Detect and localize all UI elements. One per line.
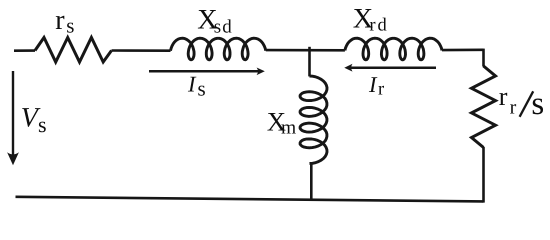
- svg-text:s: s: [38, 112, 47, 137]
- svg-text:s: s: [198, 77, 206, 101]
- resistor r_r/s: [472, 66, 496, 148]
- svg-text:r: r: [499, 82, 508, 111]
- wire top-right corner down to r_r/s: [482, 49, 485, 67]
- inductor X_rd: [345, 38, 442, 60]
- svg-text:s: s: [66, 13, 74, 37]
- svg-text:r: r: [55, 5, 65, 36]
- svg-text:sd: sd: [214, 17, 233, 38]
- svg-text:r: r: [510, 97, 517, 119]
- wire r_r/s down to bottom rail: [482, 147, 485, 203]
- svg-text:I: I: [187, 72, 197, 97]
- node stub from top wire to X_m: [308, 47, 311, 77]
- svg-text:r: r: [378, 80, 384, 100]
- inductor X_m: [300, 76, 327, 164]
- wire from X_rd to top-right corner: [442, 48, 484, 51]
- arrow I_r (rotor current): [344, 64, 436, 72]
- svg-text:I: I: [368, 72, 378, 97]
- svg-text:rd: rd: [369, 16, 388, 36]
- resistor r_s: [35, 38, 112, 63]
- wire from X_sd to X_rd through node: [266, 49, 345, 52]
- svg-text:m: m: [281, 118, 296, 139]
- wire X_m down to bottom rail: [310, 163, 313, 201]
- wire top-left segment: [14, 49, 35, 52]
- arrow V_s (source voltage): [7, 71, 19, 165]
- wire bottom rail: [16, 197, 484, 202]
- arrow I_s (stator current): [149, 68, 265, 76]
- inductor X_sd: [171, 38, 266, 60]
- wire from r_s to X_sd: [112, 49, 171, 52]
